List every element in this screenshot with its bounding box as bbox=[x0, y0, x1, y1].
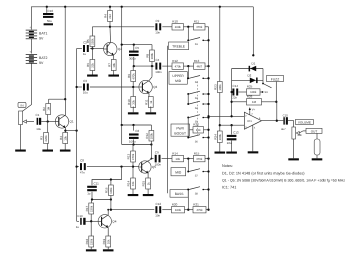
wire R5 top to treble row bbox=[92, 26, 110, 28]
svg-text:C4: C4 bbox=[156, 58, 160, 62]
svg-text:OUT: OUT bbox=[311, 130, 318, 134]
svg-text:10k: 10k bbox=[297, 133, 302, 137]
svg-text:22u: 22u bbox=[227, 141, 232, 145]
svg-text:R26: R26 bbox=[247, 95, 253, 99]
svg-text:220k: 220k bbox=[91, 38, 95, 45]
svg-text:R18: R18 bbox=[85, 239, 89, 245]
svg-text:S8: S8 bbox=[195, 192, 199, 195]
svg-text:UPPER: UPPER bbox=[172, 74, 184, 78]
svg-text:R2: R2 bbox=[42, 107, 46, 111]
svg-text:33k: 33k bbox=[131, 181, 135, 186]
svg-text:C8: C8 bbox=[80, 159, 84, 163]
ground R3 bbox=[47, 144, 49, 150]
switch S2 upper mid bbox=[187, 66, 189, 78]
svg-text:22k: 22k bbox=[91, 62, 95, 67]
svg-text:220k: 220k bbox=[89, 238, 93, 245]
resistor RT1 bbox=[172, 63, 184, 69]
resistor R18 bbox=[90, 221, 92, 236]
svg-text:S1: S1 bbox=[195, 43, 199, 46]
wire R4b to Q2 collector bbox=[109, 22, 111, 27]
wire vrail to q5 collector row bbox=[121, 125, 123, 145]
svg-text:BOOST: BOOST bbox=[174, 132, 186, 136]
ground R11b bbox=[150, 107, 152, 113]
transistor Q2 bbox=[104, 42, 117, 55]
transistor Q3 bbox=[139, 80, 152, 93]
resistor R7 bbox=[111, 60, 116, 71]
svg-text:100u: 100u bbox=[129, 139, 136, 143]
svg-text:R17: R17 bbox=[85, 206, 89, 212]
ground R10b bbox=[132, 107, 134, 113]
svg-text:V+: V+ bbox=[252, 107, 256, 111]
svg-text:C9: C9 bbox=[155, 150, 159, 154]
wire C2 row bbox=[77, 48, 82, 50]
ground IC1 bbox=[248, 151, 259, 153]
svg-text:R20: R20 bbox=[172, 202, 178, 206]
switch fuzz bbox=[263, 84, 272, 88]
svg-text:10k: 10k bbox=[63, 135, 67, 140]
svg-text:10u: 10u bbox=[83, 91, 88, 95]
pot volume bbox=[292, 127, 296, 139]
svg-text:C9: C9 bbox=[156, 19, 160, 23]
svg-text:10u: 10u bbox=[36, 127, 41, 131]
svg-text:10k: 10k bbox=[112, 62, 116, 67]
svg-text:R24: R24 bbox=[213, 134, 217, 140]
svg-text:33k: 33k bbox=[131, 99, 135, 104]
ground R15b bbox=[147, 189, 149, 194]
pot R1 (gain) bbox=[19, 111, 23, 125]
svg-text:4u7: 4u7 bbox=[281, 127, 286, 131]
svg-text:100k: 100k bbox=[150, 53, 154, 60]
svg-text:10k: 10k bbox=[175, 157, 180, 161]
svg-text:100k: 100k bbox=[218, 134, 222, 141]
wire drop to Q4 input bbox=[92, 167, 122, 186]
svg-text:1k: 1k bbox=[146, 182, 150, 186]
capacitor C2 bbox=[83, 45, 85, 52]
svg-text:470k: 470k bbox=[131, 73, 135, 80]
svg-text:R5: R5 bbox=[86, 39, 90, 43]
capacitor C8 bbox=[80, 163, 82, 170]
svg-text:R16: R16 bbox=[105, 187, 109, 193]
wire Q5 collector bbox=[150, 145, 152, 159]
svg-text:R10: R10 bbox=[127, 99, 131, 105]
resistor R16 bbox=[110, 180, 112, 186]
svg-text:Notes:: Notes: bbox=[222, 164, 233, 168]
svg-text:R13: R13 bbox=[127, 154, 131, 160]
wire collector row Q3 bbox=[134, 65, 155, 67]
wire Q1 emitter node bbox=[64, 128, 66, 133]
svg-text:C11: C11 bbox=[94, 181, 100, 185]
svg-text:R6: R6 bbox=[86, 63, 90, 67]
capacitor C15 bbox=[283, 117, 284, 124]
svg-text:1u: 1u bbox=[83, 52, 87, 56]
svg-text:R4: R4 bbox=[59, 136, 63, 140]
svg-text:R12: R12 bbox=[145, 133, 149, 139]
svg-text:C6: C6 bbox=[135, 129, 139, 133]
resistor R5 bbox=[91, 27, 93, 36]
svg-text:C14: C14 bbox=[233, 84, 239, 88]
svg-text:R23: R23 bbox=[213, 84, 217, 90]
svg-text:C15: C15 bbox=[283, 113, 289, 117]
wire C8 to Q5 base and drop bbox=[87, 166, 133, 168]
svg-text:C5: C5 bbox=[135, 46, 139, 50]
svg-text:22n: 22n bbox=[232, 96, 237, 100]
svg-text:R22: R22 bbox=[193, 123, 199, 127]
switch S6 bbox=[187, 118, 189, 138]
svg-text:2k2: 2k2 bbox=[108, 14, 112, 19]
ground R18 bbox=[90, 247, 92, 249]
wire Q3 collector bbox=[151, 66, 153, 77]
svg-text:Q3: Q3 bbox=[153, 85, 157, 89]
svg-text:R7: R7 bbox=[107, 63, 111, 67]
svg-text:S7: S7 bbox=[195, 174, 199, 177]
svg-text:470k: 470k bbox=[196, 25, 203, 29]
ground R6 bbox=[91, 71, 93, 75]
svg-text:C12: C12 bbox=[156, 202, 162, 206]
svg-text:D1: D1 bbox=[252, 62, 256, 66]
resistor R26 feedback bbox=[232, 101, 247, 103]
svg-text:220k: 220k bbox=[44, 135, 48, 142]
wire vplus divider bbox=[219, 7, 221, 82]
transistor Q4 bbox=[98, 215, 111, 228]
wire bracket rail bbox=[167, 46, 169, 193]
ground R7 bbox=[113, 71, 115, 75]
wire rail stub to fuzz loop bbox=[252, 7, 254, 55]
resistor R9 bbox=[131, 71, 136, 82]
resistor R25 bbox=[238, 91, 246, 93]
svg-text:100k: 100k bbox=[175, 25, 182, 29]
svg-text:100n: 100n bbox=[155, 70, 162, 74]
resistor boost row bbox=[190, 129, 194, 131]
wire Q4 collector bbox=[107, 210, 109, 215]
capacitor C10u row bbox=[155, 23, 157, 30]
pot R1 wiper arrow bbox=[23, 120, 26, 123]
wire C1 to Q1 base bbox=[41, 121, 55, 123]
capacitor C6 bbox=[133, 125, 135, 131]
svg-text:R15: R15 bbox=[142, 181, 146, 187]
wire Q3 emitter bbox=[148, 93, 150, 96]
wire upper row bbox=[110, 26, 154, 28]
svg-text:+: + bbox=[29, 26, 31, 30]
resistor RU2 bbox=[194, 24, 206, 30]
svg-text:Q4: Q4 bbox=[112, 220, 116, 224]
svg-text:R14: R14 bbox=[172, 151, 178, 155]
diode D1 bbox=[232, 68, 263, 70]
svg-text:50u: 50u bbox=[47, 19, 52, 23]
capacitor C12 bass bbox=[155, 206, 157, 213]
wire Q5 base row bbox=[133, 166, 139, 168]
svg-text:100k: 100k bbox=[109, 187, 113, 194]
wire R16/C11 bottom row bbox=[92, 199, 111, 201]
switch S4 bbox=[187, 94, 189, 104]
svg-text:PWR: PWR bbox=[176, 127, 184, 131]
svg-text:IC1: IC1 bbox=[247, 119, 252, 123]
switch S7 mid bbox=[187, 159, 189, 172]
svg-text:R14: R14 bbox=[127, 181, 131, 187]
resistor R2 bbox=[48, 99, 50, 104]
svg-text:R11: R11 bbox=[194, 20, 200, 24]
svg-text:R9: R9 bbox=[127, 74, 131, 78]
svg-text:R8: R8 bbox=[146, 53, 150, 57]
capacitor C14 bbox=[231, 91, 234, 93]
svg-text:300u: 300u bbox=[129, 57, 136, 61]
resistor RM2 bbox=[194, 155, 206, 161]
label box PWR BOOST bbox=[171, 124, 190, 136]
ground R14b bbox=[132, 189, 134, 194]
switch S8 bass bbox=[187, 190, 189, 210]
svg-text:+: + bbox=[29, 50, 31, 54]
svg-text:1u: 1u bbox=[87, 192, 91, 196]
ground pot volume bbox=[293, 139, 295, 158]
pot volume wiper bbox=[296, 132, 299, 135]
svg-text:1M: 1M bbox=[46, 106, 50, 111]
wire Q5 emitter bbox=[147, 173, 149, 178]
svg-text:10n: 10n bbox=[155, 31, 160, 35]
svg-text:R4: R4 bbox=[104, 14, 108, 18]
wire fuzz box drop bbox=[275, 82, 277, 102]
wire C10 to Q4 base bbox=[86, 220, 99, 222]
svg-text:470k: 470k bbox=[175, 64, 182, 68]
svg-text:1u: 1u bbox=[76, 225, 80, 229]
wire upper row to bus bbox=[205, 26, 209, 28]
resistor R4b top bbox=[108, 11, 113, 22]
capacitor C10 bbox=[77, 220, 79, 222]
svg-text:BAT2: BAT2 bbox=[39, 56, 48, 60]
svg-text:10k: 10k bbox=[196, 128, 201, 132]
resistor R4 emitter bbox=[63, 133, 68, 144]
resistor RM1 bbox=[172, 155, 184, 161]
switch S3 bbox=[187, 93, 189, 95]
node rail junctions bbox=[46, 6, 48, 8]
ground pot R1 bbox=[20, 125, 22, 150]
svg-text:S2: S2 bbox=[195, 81, 199, 84]
svg-text:470k: 470k bbox=[196, 208, 203, 212]
resistor R23 bbox=[217, 82, 222, 93]
svg-text:470k: 470k bbox=[196, 157, 203, 161]
svg-text:IN: IN bbox=[21, 104, 24, 108]
resistor R13b bbox=[132, 145, 134, 152]
wire treble row bbox=[162, 65, 172, 67]
capacitor C11 bbox=[87, 186, 97, 188]
svg-text:10k: 10k bbox=[106, 239, 110, 244]
wire vrail x122 bbox=[121, 7, 123, 125]
svg-text:R3: R3 bbox=[40, 136, 44, 140]
svg-text:R15: R15 bbox=[194, 151, 200, 155]
wire C15 to volume bbox=[288, 121, 294, 127]
ground C13 bbox=[231, 141, 233, 152]
svg-text:S4: S4 bbox=[195, 107, 199, 110]
gang dashed link bbox=[196, 82, 198, 136]
wire op-amp output bbox=[262, 120, 284, 122]
resistor R10b bbox=[132, 87, 134, 97]
resistor R19 bbox=[106, 236, 111, 247]
wire noninv line bbox=[220, 124, 245, 126]
svg-text:S9: S9 bbox=[265, 91, 269, 94]
svg-text:C13: C13 bbox=[233, 130, 239, 134]
svg-text:R11: R11 bbox=[144, 99, 148, 105]
svg-text:1M: 1M bbox=[252, 100, 257, 104]
svg-text:D2: D2 bbox=[248, 73, 252, 77]
wire C3 to Q3 base bbox=[90, 86, 139, 88]
svg-text:100n: 100n bbox=[155, 163, 162, 167]
resistor R15b bbox=[146, 178, 151, 189]
svg-text:47n: 47n bbox=[80, 170, 85, 174]
ground R19 bbox=[107, 247, 109, 249]
svg-text:R21: R21 bbox=[193, 202, 199, 206]
svg-text:R25: R25 bbox=[247, 85, 253, 89]
svg-text:100k: 100k bbox=[150, 133, 154, 140]
svg-text:VOLUME: VOLUME bbox=[298, 121, 311, 125]
capacitor C13 bbox=[231, 125, 233, 134]
label box VOLUME bbox=[295, 120, 313, 125]
resistor R12b bbox=[150, 125, 152, 131]
wire battery minus to input pot bbox=[22, 63, 31, 111]
svg-text:C16: C16 bbox=[48, 9, 54, 13]
wire C8 row bbox=[77, 166, 79, 168]
transistor Q1 bbox=[55, 115, 68, 128]
svg-text:BASS: BASS bbox=[175, 192, 185, 196]
resistor R11b bbox=[148, 97, 153, 108]
resistor RB1 row bbox=[172, 207, 185, 213]
ground R4 bbox=[64, 144, 66, 150]
svg-text:4M7: 4M7 bbox=[196, 64, 202, 68]
svg-text:C10: C10 bbox=[77, 214, 83, 218]
wire bass row from collector bbox=[108, 209, 154, 211]
transistor Q5 bbox=[139, 161, 151, 173]
input jack label IN bbox=[18, 102, 26, 107]
wire mid row bbox=[162, 158, 172, 160]
resistor R3 bbox=[44, 133, 49, 144]
wire Q5 top row bbox=[122, 124, 152, 126]
svg-text:FUZZ: FUZZ bbox=[271, 77, 279, 81]
wire feedback to output bbox=[262, 102, 277, 121]
svg-text:Q1 - Q5: 2N 5088 (30V/50mA/3: Q1 - Q5: 2N 5088 (30V/50mA/310mW) B 300.… bbox=[222, 179, 345, 183]
svg-text:C3: C3 bbox=[83, 79, 87, 83]
svg-text:S6: S6 bbox=[195, 140, 199, 143]
wire Q4 emitter bbox=[107, 228, 109, 236]
capacitor C9 mid bbox=[151, 158, 153, 160]
svg-text:R10: R10 bbox=[172, 20, 178, 24]
label box FUZZ bbox=[267, 76, 284, 82]
resistor RT2 bbox=[194, 63, 206, 69]
wire C5/R8 top bbox=[122, 44, 152, 46]
label box BASS bbox=[170, 190, 188, 198]
capacitor C3 bbox=[83, 84, 85, 91]
ground output jack bbox=[316, 155, 318, 158]
svg-text:100k: 100k bbox=[218, 84, 222, 91]
wire Q1 collector to rail bbox=[64, 7, 66, 99]
svg-text:MID: MID bbox=[175, 79, 182, 83]
op-amp IC1 bbox=[244, 112, 261, 129]
svg-text:MID: MID bbox=[175, 171, 182, 175]
svg-text:10n: 10n bbox=[155, 213, 160, 217]
svg-text:9V: 9V bbox=[39, 61, 44, 65]
wire top supply rail bbox=[31, 7, 253, 30]
svg-text:100k: 100k bbox=[175, 208, 182, 212]
ground R24 bbox=[219, 143, 221, 152]
resistor R24 bbox=[217, 131, 222, 143]
pin4 ground bbox=[252, 125, 254, 151]
wire signal bus vertical bbox=[76, 49, 78, 131]
svg-text:Q1: Q1 bbox=[70, 120, 74, 124]
svg-text:470k: 470k bbox=[131, 153, 135, 160]
label box TREBLE bbox=[169, 42, 189, 50]
svg-text:IC1: 741: IC1: 741 bbox=[222, 186, 236, 190]
svg-text:S3: S3 bbox=[195, 97, 199, 100]
svg-text:220k: 220k bbox=[89, 205, 93, 212]
label box MID bbox=[171, 168, 186, 176]
wire inv input line bbox=[209, 115, 245, 117]
label box OUT bbox=[306, 128, 322, 133]
resistor R6 bbox=[91, 49, 93, 60]
output jack bbox=[316, 133, 318, 139]
svg-text:BAT1: BAT1 bbox=[39, 32, 48, 36]
wire Q2 emitter bbox=[113, 55, 115, 59]
wire C3 row bbox=[77, 86, 82, 88]
svg-text:R12: R12 bbox=[172, 59, 178, 63]
svg-text:9V: 9V bbox=[39, 36, 44, 40]
svg-text:TREBLE: TREBLE bbox=[172, 45, 186, 49]
switch S1 treble bbox=[187, 27, 189, 41]
switch S5 bbox=[187, 117, 189, 119]
wire feedback vertical bbox=[231, 69, 233, 117]
diode D2 bbox=[232, 79, 263, 81]
resistor RB2 row bbox=[193, 207, 206, 213]
resistor R8 bbox=[151, 45, 153, 50]
vplus pin arrow bbox=[249, 109, 251, 115]
wire bus tone bbox=[208, 27, 210, 210]
svg-text:R13: R13 bbox=[194, 59, 200, 63]
resistor RU1 bbox=[172, 24, 184, 30]
resistor R14b bbox=[132, 167, 134, 178]
capacitor C4 bbox=[155, 63, 157, 70]
svg-text:R19: R19 bbox=[102, 239, 106, 245]
svg-text:D1, D2: 1N 4148 (or first un: D1, D2: 1N 4148 (or first units maybe Ge… bbox=[222, 171, 305, 175]
label box UPPER MID bbox=[169, 72, 187, 85]
resistor R17 bbox=[90, 200, 93, 204]
capacitor C5 bbox=[133, 45, 135, 51]
svg-text:C1: C1 bbox=[36, 113, 40, 117]
